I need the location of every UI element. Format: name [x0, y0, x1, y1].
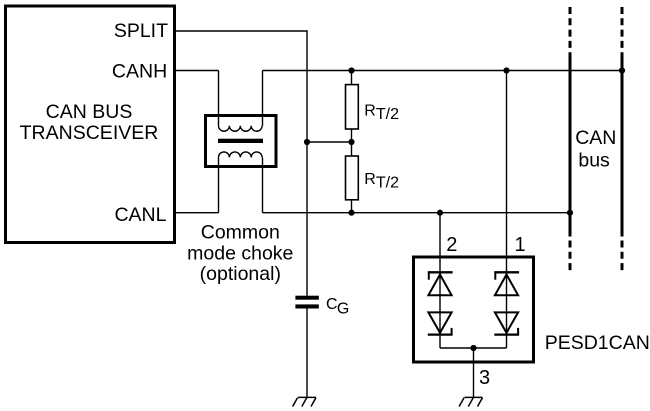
node dot SPLIT/stub junction	[304, 139, 310, 145]
svg-text:bus: bus	[578, 150, 610, 172]
value label CG	[326, 296, 349, 318]
wire SPLIT vertical down to capacitor	[306, 31, 308, 296]
net label CAN bus	[575, 127, 616, 172]
choke caption Common mode choke (optional)	[187, 221, 293, 285]
diode D4 (right bottom, zener down)	[494, 312, 519, 334]
svg-text:PESD1CAN: PESD1CAN	[545, 332, 650, 354]
wire R1 top lead	[351, 71, 353, 85]
transceiver label CAN BUS TRANSCEIVER	[20, 101, 159, 144]
wire PESD pin 1 from CANH	[506, 71, 508, 273]
wire pin 3 to ground	[473, 348, 475, 397]
wire CANH from transceiver to choke	[174, 70, 219, 72]
value label R_T/2 lower	[364, 171, 399, 192]
node dot pin3 junction	[470, 345, 476, 351]
inductor winding L1 upper (4 arcs)	[219, 126, 263, 131]
wire PESD pin 2 from CANL	[439, 213, 441, 273]
svg-text:C: C	[326, 296, 338, 313]
svg-text:TRANSCEIVER: TRANSCEIVER	[20, 122, 159, 144]
node dot pin1 at CANH	[503, 67, 509, 73]
wire CANL from transceiver to choke	[174, 212, 219, 214]
CAN bus right line (solid)	[621, 55, 624, 237]
svg-text:T/2: T/2	[376, 106, 399, 123]
wire capacitor bottom to ground	[306, 309, 308, 398]
CAN bus right line (dashed bottom)	[621, 241, 624, 272]
common mode choke box	[206, 116, 277, 167]
wire PESD internal bottom interconnect	[440, 347, 507, 349]
PESD1CAN box	[414, 257, 534, 362]
svg-text:CAN BUS: CAN BUS	[46, 101, 133, 123]
svg-text:R: R	[364, 103, 376, 120]
node dot resistor midpoint junction	[348, 139, 354, 145]
svg-text:CAN: CAN	[575, 127, 616, 149]
wire stub node SPLIT to resistor midpoint	[307, 141, 352, 143]
resistor R_T/2 lower body	[346, 156, 359, 200]
diode D2 (left bottom, zener down)	[428, 312, 453, 334]
svg-text:R: R	[364, 171, 376, 188]
wire choke upper-right lead up	[262, 71, 264, 126]
wire CANH main to CAN bus	[263, 70, 623, 72]
ground symbol below CG	[293, 397, 316, 406]
node dot CANH at right bus line	[619, 67, 625, 73]
svg-text:CANH: CANH	[112, 61, 167, 83]
CAN bus right line (dashed top)	[621, 7, 624, 58]
wire choke lower-right lead down	[262, 157, 264, 212]
capacitor CG top plate	[295, 296, 318, 300]
wire CANL main to CAN bus	[263, 212, 571, 214]
choke core bar	[218, 139, 263, 143]
svg-text:CANL: CANL	[114, 204, 166, 226]
resistor R_T/2 upper body	[346, 85, 359, 129]
wire left stack vertical	[439, 272, 441, 348]
svg-text:1: 1	[515, 234, 526, 256]
CAN bus left line (dashed bottom)	[569, 241, 572, 272]
svg-text:(optional): (optional)	[200, 263, 281, 285]
wire choke upper-left lead down	[218, 71, 220, 126]
CAN bus left line (dashed top)	[569, 7, 572, 58]
svg-text:G: G	[337, 301, 349, 318]
node dot R2 bottom at CANL	[348, 210, 354, 216]
wire choke lower-left lead up	[218, 157, 220, 212]
svg-text:T/2: T/2	[376, 175, 399, 192]
wire R1 bottom lead	[351, 129, 353, 142]
svg-text:Common: Common	[201, 221, 280, 243]
diode D1 (left top, zener up)	[428, 272, 453, 295]
node dot pin2 at CANL	[437, 210, 443, 216]
CAN bus left line (solid)	[569, 55, 572, 237]
svg-text:2: 2	[446, 234, 457, 256]
wire right stack vertical	[506, 272, 508, 348]
inductor winding L2 lower (4 arcs)	[219, 152, 263, 157]
diode D3 (right top, zener up)	[494, 272, 519, 295]
transceiver U1 box	[6, 6, 175, 243]
node dot R1 top at CANH	[348, 67, 354, 73]
wire R2 bottom lead	[351, 200, 353, 213]
wire SPLIT horizontal	[174, 30, 308, 32]
ground symbol below pin 3	[459, 397, 482, 406]
capacitor CG bottom plate	[295, 304, 318, 308]
svg-text:3: 3	[479, 367, 490, 389]
node dot CANL at left bus line	[567, 210, 573, 216]
svg-text:mode choke: mode choke	[187, 243, 293, 265]
wire R2 top lead	[351, 142, 353, 156]
svg-text:SPLIT: SPLIT	[114, 20, 168, 42]
value label R_T/2 upper	[364, 103, 399, 124]
